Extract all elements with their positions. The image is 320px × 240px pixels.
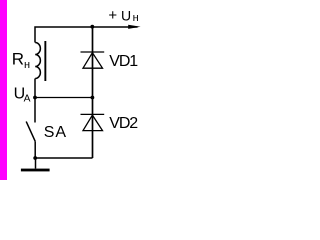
wire switch bottom: [34, 141, 36, 158]
svg-text:A: A: [24, 93, 31, 104]
svg-text:U: U: [121, 8, 131, 24]
node bottom junction: [33, 156, 37, 160]
diode VD1: [81, 52, 105, 68]
wire mid rail: [35, 97, 93, 99]
svg-text:VD1: VD1: [109, 53, 138, 70]
svg-text:VD2: VD2: [109, 115, 138, 132]
node top junction: [90, 25, 94, 29]
label + Un: [108, 7, 138, 24]
svg-text:SA: SA: [44, 124, 67, 141]
node mid-right junction: [91, 96, 95, 100]
magenta sidebar: [0, 0, 7, 180]
wire top rail: [35, 27, 138, 43]
label SA: [44, 124, 67, 141]
label Rn: [12, 49, 30, 71]
svg-text:+: +: [108, 7, 117, 24]
switch SA lever: [26, 122, 35, 142]
arrow +Un supply: [128, 25, 140, 29]
wire bottom rail: [35, 27, 92, 158]
node mid-left junction: [33, 96, 37, 100]
label Ua: [14, 86, 31, 105]
svg-text:н: н: [24, 59, 30, 71]
diode VD2: [81, 114, 105, 130]
label VD1: [109, 53, 138, 70]
ground: [21, 158, 50, 171]
label VD2: [109, 115, 138, 132]
wire left branch: [34, 79, 36, 123]
svg-text:н: н: [133, 12, 139, 24]
inductor core line: [44, 41, 46, 81]
inductor winding Rn: [35, 43, 40, 79]
svg-text:R: R: [12, 49, 24, 68]
